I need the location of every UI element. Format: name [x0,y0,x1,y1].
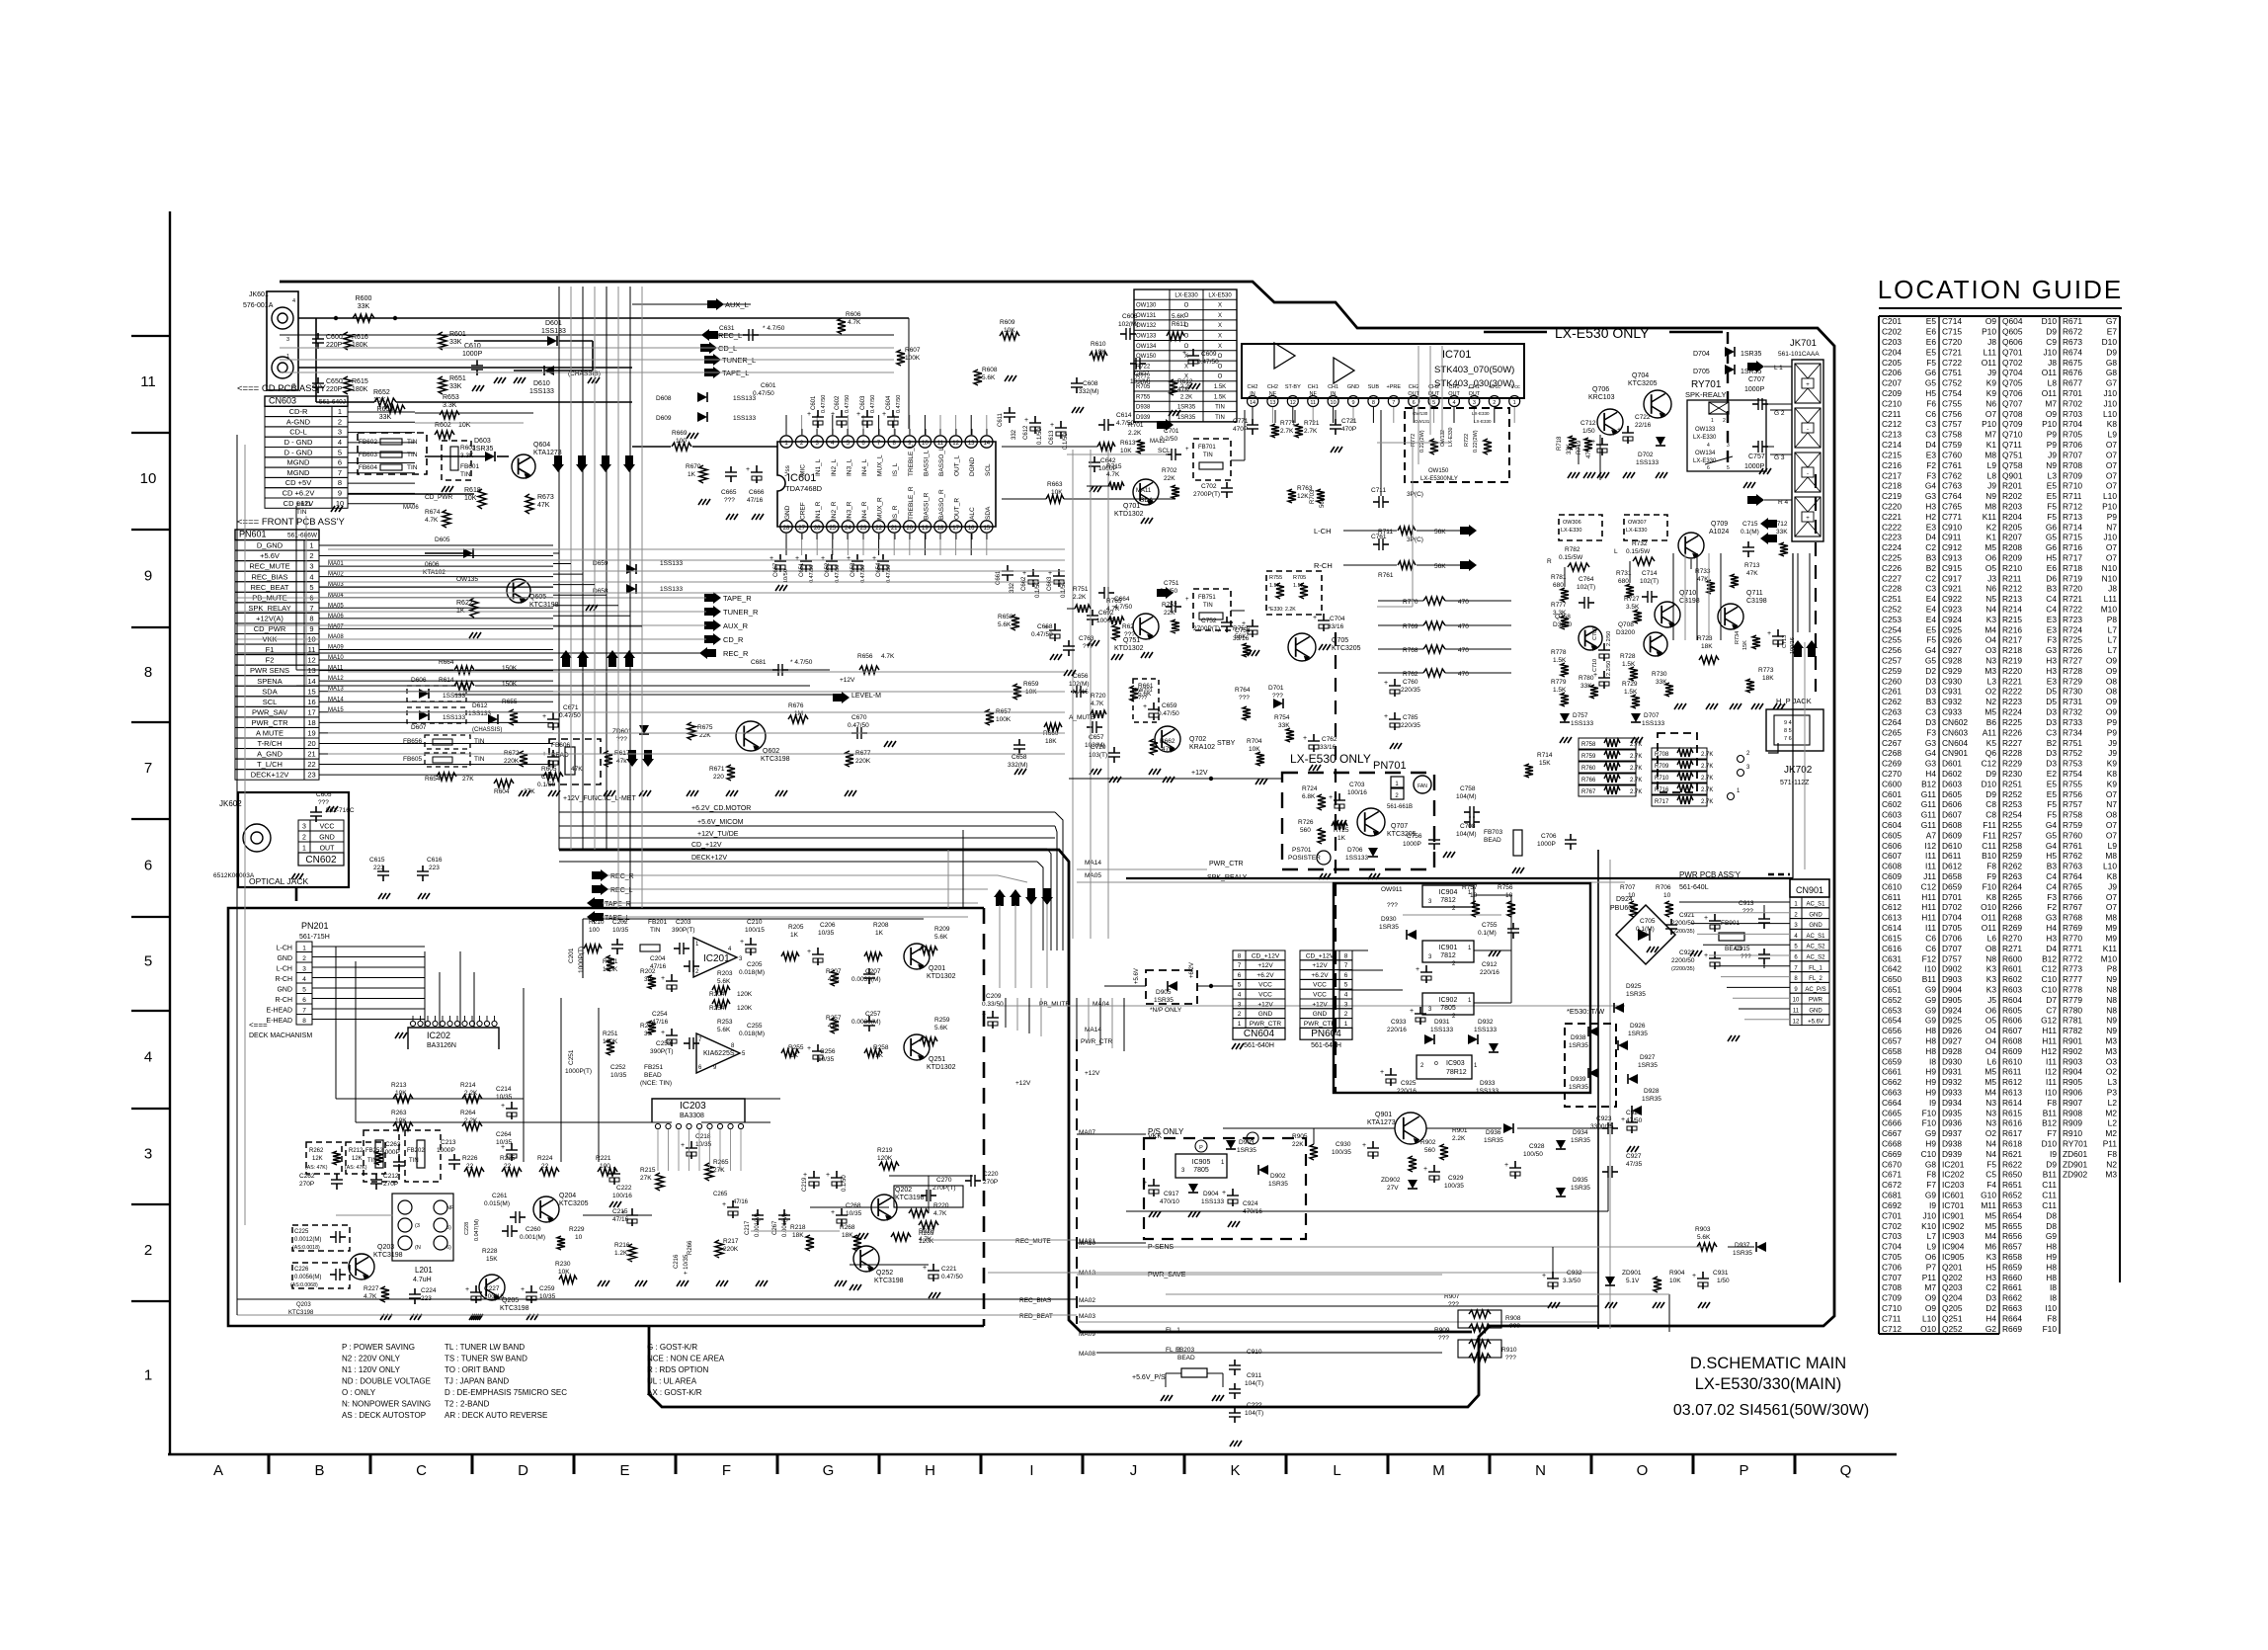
svg-text:J10: J10 [1922,1210,1936,1220]
svg-text:R217: R217 [723,1238,739,1245]
svg-text:R722: R722 [1464,434,1470,447]
svg-text:(AS:0.0068): (AS:0.0068) [290,1282,318,1288]
svg-text:C11: C11 [2042,1191,2057,1200]
regulator IC903 78R12 [1417,1055,1472,1079]
svg-text:G6: G6 [2046,522,2058,532]
svg-text:BASSI_L: BASSI_L [923,450,930,476]
svg-text:C7: C7 [2046,1005,2057,1015]
svg-text:C672: C672 [1882,1180,1902,1190]
svg-text:R257: R257 [2002,830,2022,840]
svg-text:25: 25 [829,526,836,532]
svg-text:Q201: Q201 [1942,1262,1963,1272]
svg-text:C710: C710 [1592,659,1598,672]
diode D610 [544,366,554,375]
svg-text:KTC3205: KTC3205 [559,1200,589,1207]
svg-text:D605: D605 [1942,789,1962,799]
svg-text:23: 23 [307,771,315,780]
svg-text:R228: R228 [482,1248,498,1255]
svg-text:C928: C928 [1942,656,1962,666]
svg-text:R606: R606 [846,311,861,318]
svg-text:4.7uH: 4.7uH [413,1277,432,1283]
svg-text:*E330: 2.2K: *E330: 2.2K [1268,607,1296,613]
svg-text:OUT: OUT [320,846,336,853]
svg-text:R761: R761 [1378,572,1394,579]
svg-text:0.47/50: 0.47/50 [1197,359,1219,366]
svg-text:R717: R717 [2063,552,2082,562]
svg-text:O7: O7 [2106,902,2118,912]
svg-text:R212: R212 [349,1148,364,1154]
svg-text:R734: R734 [1735,631,1741,644]
svg-text:0.0039(M): 0.0039(M) [851,976,881,983]
svg-text:16: 16 [968,526,975,532]
svg-text:AC_P/S: AC_P/S [1805,987,1825,993]
svg-text:R904: R904 [2063,1067,2082,1077]
svg-text:MGND: MGND [287,458,310,467]
wire aux bus arrows [707,298,724,310]
svg-text:C668: C668 [1037,623,1053,630]
svg-text:O: O [1184,344,1189,350]
svg-text:IN2_R: IN2_R [831,501,838,520]
svg-text:2.2K: 2.2K [464,1090,478,1097]
svg-text:C692: C692 [1882,1200,1902,1210]
svg-text:9 4: 9 4 [1784,720,1792,726]
svg-text:5): 5) [446,1225,451,1231]
svg-text:P: P [1251,1137,1255,1143]
svg-text:10K: 10K [1669,1278,1681,1284]
svg-text:O3: O3 [1985,645,1997,655]
svg-text:TIN: TIN [407,464,418,471]
svg-text:C703: C703 [1882,1231,1902,1241]
svg-text:R722: R722 [1136,364,1151,370]
svg-text:19: 19 [922,526,929,532]
svg-text:1: 1 [1344,1021,1348,1028]
svg-text:K8: K8 [2107,769,2118,779]
svg-text:C222: C222 [616,1185,632,1192]
svg-text:F8: F8 [1986,862,1996,871]
svg-text:L10: L10 [2103,862,2117,871]
svg-text:R656: R656 [2002,1231,2022,1241]
svg-text:A7: A7 [1926,830,1937,840]
svg-text:D10: D10 [2042,1139,2058,1149]
svg-text:R651: R651 [2002,1180,2022,1190]
capacitor C268 [841,1208,843,1215]
svg-text:C253: C253 [1882,615,1902,624]
resistor R600 [353,314,374,322]
svg-text:P : POWER SAVING: P : POWER SAVING [342,1343,415,1352]
svg-text:2: 2 [302,835,306,842]
capacitors C611 C612 C613 [1009,407,1011,413]
svg-text:C925: C925 [1401,1080,1417,1087]
svg-text:C2: C2 [1925,573,1936,583]
svg-text:4.7K: 4.7K [425,517,439,524]
svg-text:X: X [1218,334,1222,340]
svg-text:M6: M6 [1984,1242,1996,1252]
svg-text:3: 3 [309,562,313,571]
svg-text:0.1/50: 0.1/50 [1037,428,1043,445]
svg-text:D925: D925 [1942,1016,1962,1026]
svg-text:102(T): 102(T) [1577,584,1595,591]
svg-text:D707: D707 [1942,944,1962,953]
svg-text:N4: N4 [1985,605,1996,615]
svg-text:F6: F6 [1926,398,1936,408]
resistor R607 [897,350,905,366]
svg-text:9: 9 [338,489,342,498]
svg-text:N9: N9 [2106,1026,2117,1035]
svg-text:I12: I12 [1924,841,1936,851]
svg-text:PN201: PN201 [301,921,329,931]
svg-text:R729: R729 [2063,676,2082,686]
svg-text:L10: L10 [1922,1313,1936,1323]
svg-text:+5.6V: +5.6V [1134,968,1140,984]
svg-text:C222: C222 [1882,522,1902,532]
regulator IC905 7805 [1175,1154,1227,1178]
svg-text:0.47/50: 0.47/50 [809,565,815,583]
capacitor C222 [613,1167,615,1174]
svg-text:8: 8 [1344,952,1348,959]
svg-text:+5.6V: +5.6V [1808,1019,1823,1025]
svg-text:PN701: PN701 [1373,760,1407,772]
svg-text:GND: GND [1258,1011,1273,1018]
capacitor C270 [921,1195,927,1196]
svg-text:C12: C12 [1921,881,1937,891]
svg-text:IC601: IC601 [1942,1191,1965,1200]
svg-text:C254: C254 [652,1011,668,1018]
svg-text:O9: O9 [1925,1303,1937,1313]
svg-text:Q204: Q204 [1942,1293,1963,1303]
svg-text:LX-E530/330(MAIN): LX-E530/330(MAIN) [1695,1375,1842,1393]
svg-text:JK701: JK701 [1790,338,1817,349]
svg-text:J11: J11 [1923,871,1936,881]
svg-text:470: 470 [1458,647,1469,654]
svg-text:REC_BIAS: REC_BIAS [251,572,287,581]
svg-text:78R12: 78R12 [1446,1069,1467,1076]
svg-text:C216: C216 [1882,460,1902,470]
svg-text:10K: 10K [395,1117,407,1124]
svg-text:D928: D928 [1644,1088,1660,1095]
svg-text:47K: 47K [571,766,583,773]
svg-text:TAPE_R: TAPE_R [723,594,752,603]
resistor R660 [1044,723,1062,731]
svg-text:R251: R251 [603,1031,618,1037]
svg-text:C713: C713 [1782,635,1788,648]
svg-text:C607: C607 [1882,851,1902,861]
wire vertical trunk lines left [558,287,560,850]
svg-text:F4: F4 [1986,1180,1996,1190]
svg-text:R701: R701 [1128,422,1144,429]
svg-text:21: 21 [891,526,898,532]
svg-text:5.1V: 5.1V [1626,1278,1640,1284]
svg-text:Q710: Q710 [1679,590,1696,597]
svg-text:B3: B3 [2047,584,2058,594]
svg-text:KTD1302: KTD1302 [927,1064,956,1071]
svg-text:TREBLE_L: TREBLE_L [908,444,915,476]
svg-text:O11: O11 [1982,358,1997,368]
svg-text:X: X [1184,364,1188,370]
svg-text:C267: C267 [1882,738,1902,748]
svg-text:R264: R264 [460,1110,476,1116]
svg-text:332: 332 [1012,429,1017,440]
wire sda scl lines [1002,446,1097,448]
svg-text:G5: G5 [1925,378,1937,388]
svg-text:IC201: IC201 [703,953,730,964]
svg-text:R218: R218 [2002,645,2022,655]
svg-text:E-HEAD: E-HEAD [267,1008,292,1015]
svg-text:IN2_L: IN2_L [831,458,838,476]
svg-text:1K: 1K [790,932,799,939]
svg-text:F7: F7 [2047,1128,2057,1138]
wire vertical pair left [295,506,297,670]
svg-text:+12V: +12V [1015,1080,1031,1087]
svg-text:G8: G8 [2106,368,2118,377]
svg-text:R710: R710 [2063,481,2082,491]
diodes D606 D607 [407,686,466,701]
svg-text:G7: G7 [2106,316,2118,326]
svg-text:CN604: CN604 [1244,1029,1275,1039]
svg-text:R660: R660 [2002,1273,2022,1282]
svg-text:PWR_CTR: PWR_CTR [1304,1021,1336,1028]
svg-text:M5: M5 [1984,1221,1996,1231]
capacitor C225 dashed [292,1225,350,1251]
svg-text:7812: 7812 [1440,952,1456,959]
svg-text:N: N [1535,1462,1546,1479]
svg-text:C10: C10 [2042,984,2058,994]
svg-text:R762: R762 [2063,851,2082,861]
svg-text:0606: 0606 [425,561,440,568]
svg-text:H8: H8 [1925,1046,1936,1056]
svg-text:LEVEL-M: LEVEL-M [851,693,881,700]
svg-text:F12: F12 [1922,953,1937,963]
capacitor C762 [1313,734,1315,741]
svg-text:O: O [1184,323,1189,329]
svg-text:???: ??? [1741,953,1751,960]
svg-text:AC_S2: AC_S2 [1806,955,1825,961]
svg-text:5.6K: 5.6K [717,978,731,985]
svg-text:C228: C228 [1882,584,1902,594]
svg-text:C204: C204 [650,955,666,962]
svg-text:C672: C672 [541,774,557,781]
svg-text:L9: L9 [1987,460,1997,470]
svg-text:OW132: OW132 [1440,430,1446,447]
svg-text:R910: R910 [1501,1347,1517,1354]
wire +12v tu/de bus [559,837,1055,839]
capacitor C226 dashed [292,1263,350,1288]
svg-text:6: 6 [1238,972,1242,979]
capacitor C265 [732,1200,734,1207]
svg-text:M: M [1432,1462,1445,1479]
svg-text:N2 : 220V ONLY: N2 : 220V ONLY [342,1355,401,1363]
svg-text:E4: E4 [1926,615,1937,624]
svg-text:680: 680 [1553,582,1564,589]
resistor R703 [1317,489,1325,503]
svg-text:27V: 27V [1387,1185,1399,1192]
svg-text:R705: R705 [2063,430,2082,440]
svg-text:R209: R209 [2002,552,2022,562]
svg-text:270P: 270P [299,1181,314,1188]
svg-text:B11: B11 [2043,1108,2058,1117]
svg-text:R902: R902 [1420,1139,1436,1146]
svg-text:Q711: Q711 [2002,440,2022,450]
svg-text:R663: R663 [2002,1303,2022,1313]
svg-text:+12V: +12V [1257,1001,1273,1008]
svg-text:C631: C631 [719,325,735,332]
svg-text:+: + [1050,422,1054,429]
svg-text:O11: O11 [2042,368,2058,377]
svg-text:D603: D603 [474,438,491,445]
svg-text:C261: C261 [1882,687,1902,697]
svg-text:C667: C667 [1882,1128,1902,1138]
transistor Q605 [507,579,530,603]
svg-text:TAPE_L: TAPE_L [605,915,630,922]
svg-text:F5: F5 [2047,512,2057,522]
svg-text:C3198: C3198 [1746,598,1767,605]
svg-text:Q: Q [1840,1462,1852,1479]
svg-text:R609: R609 [1000,319,1015,326]
svg-text:R229: R229 [569,1226,585,1233]
svg-text:GND: GND [1313,1011,1328,1018]
wire ic701 feed lines [1377,442,1450,444]
svg-text:TIN: TIN [650,927,661,934]
transistor Q203 [349,1254,374,1279]
svg-text:4.7K: 4.7K [1106,471,1120,478]
svg-text:B12: B12 [2042,953,2057,963]
svg-text:R221: R221 [2002,676,2022,686]
svg-text:0.15/5W: 0.15/5W [1626,548,1651,555]
svg-text:C763: C763 [1942,481,1962,491]
capacitor C616 [422,866,424,871]
svg-text:L-CH: L-CH [277,966,292,973]
svg-text:D4: D4 [1925,440,1936,450]
svg-text:G4: G4 [2046,841,2058,851]
svg-text:D - GND: D - GND [284,438,313,447]
svg-text:33K: 33K [379,414,392,421]
svg-text:+: + [1384,713,1388,720]
svg-text:R781: R781 [2063,1016,2082,1026]
svg-text:C715: C715 [1742,521,1758,528]
svg-text:+: + [1143,703,1147,710]
svg-text:2.7K: 2.7K [1304,428,1318,435]
svg-text:+: + [1591,439,1595,446]
svg-text:6: 6 [1707,465,1710,471]
svg-text:R768: R768 [1403,647,1418,654]
svg-text:+: + [1692,1273,1696,1279]
svg-text:B11: B11 [1922,974,1937,984]
svg-text:2.2K: 2.2K [1452,1135,1466,1142]
svg-text:+: + [746,466,750,473]
svg-text:D3: D3 [2046,748,2057,758]
svg-text:12K: 12K [1297,493,1309,500]
svg-text:D3200: D3200 [1616,629,1636,636]
svg-text:R612: R612 [2002,1077,2022,1087]
svg-text:C923: C923 [1942,605,1962,615]
svg-text:R622: R622 [2002,1159,2022,1169]
svg-text:220/35: 220/35 [1401,687,1420,694]
svg-text:R658: R658 [2002,1252,2022,1262]
svg-text:H_P JACK: H_P JACK [1776,697,1812,705]
svg-text:576-001A: 576-001A [243,302,274,309]
svg-text:R229: R229 [2002,759,2022,769]
svg-text:???: ??? [1272,693,1283,700]
svg-text:8: 8 [1238,952,1242,959]
svg-text:KTD1302: KTD1302 [927,973,956,980]
svg-text:R215: R215 [2002,615,2022,624]
svg-text:Q202: Q202 [1942,1273,1963,1282]
capacitor C659 [1153,702,1155,709]
svg-text:D3: D3 [1925,676,1936,686]
svg-text:2.7K: 2.7K [1630,789,1642,795]
svg-text:561-661B: 561-661B [1387,804,1413,810]
svg-text:C751: C751 [1942,368,1962,377]
capacitor C709 C710 [1603,643,1605,650]
wire top caps to ic601 [817,429,819,442]
svg-text:2: 2 [1238,1011,1242,1018]
resistor R215 [656,1173,664,1191]
svg-text:C720: C720 [1942,337,1962,347]
wire +12v func bus [559,811,1055,813]
svg-text:N3: N3 [1985,1108,1996,1117]
svg-text:P11: P11 [1922,1273,1937,1282]
svg-text:NF: NF [1269,391,1277,397]
svg-text:R713: R713 [1744,562,1760,569]
svg-text:C706: C706 [1882,1262,1902,1272]
svg-text:C259: C259 [539,1285,555,1292]
svg-text:12K: 12K [352,1156,363,1162]
svg-text:D608: D608 [1942,820,1962,830]
transistor Q602 [736,721,766,751]
svg-text:C612: C612 [1882,902,1902,912]
svg-text:+: + [1410,1008,1414,1015]
svg-text:P10: P10 [2102,501,2117,511]
svg-text:IC203: IC203 [680,1101,706,1112]
svg-text:NF: NF [446,1205,454,1211]
svg-text:Q901: Q901 [2002,470,2023,480]
svg-text:K9: K9 [1986,378,1997,388]
svg-text:R703: R703 [1310,489,1316,504]
wire preamp nets [1067,454,1168,455]
svg-text:OW150: OW150 [1136,354,1157,360]
svg-text:+: + [1185,447,1189,453]
svg-text:C771: C771 [1233,418,1249,425]
svg-text:33K: 33K [358,303,370,310]
svg-text:D603: D603 [1942,779,1962,788]
svg-text:Q702: Q702 [2002,358,2023,368]
svg-text:C262: C262 [299,1173,315,1180]
svg-text:B3: B3 [2047,862,2058,871]
svg-text:4.7K: 4.7K [848,319,861,326]
svg-text:OW134: OW134 [1695,451,1716,456]
svg-text:R674: R674 [2063,347,2082,357]
svg-text:R765: R765 [2063,881,2082,891]
svg-text:C206: C206 [820,922,836,929]
svg-text:R220: R220 [933,1202,949,1209]
svg-text:AS : DECK AUTOSTOP: AS : DECK AUTOSTOP [342,1411,426,1420]
svg-text:R777: R777 [1551,602,1567,609]
svg-text:GND: GND [784,505,791,520]
svg-text:C910: C910 [1942,522,1962,532]
regulator IC904 7812 [1422,885,1474,907]
svg-text:TIN: TIN [407,439,418,446]
svg-text:C603: C603 [1882,810,1902,820]
svg-text:R760: R760 [2063,830,2082,840]
svg-text:D926: D926 [1942,1026,1962,1035]
svg-text:+: + [807,411,811,418]
svg-text:C923: C923 [1596,1115,1612,1122]
svg-text:+Vcc: +Vcc [1489,384,1501,390]
capacitor C661 [1007,565,1009,571]
svg-text:33K: 33K [1567,444,1573,454]
capacitor C224 [414,1288,416,1294]
svg-text:*E530: T/W: *E530: T/W [1567,1007,1605,1016]
svg-text:C752: C752 [1942,378,1962,388]
